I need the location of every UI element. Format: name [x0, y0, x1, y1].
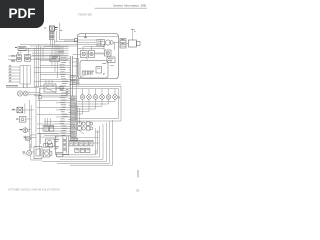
fuse block F — [45, 26, 58, 40]
terminal block X7 — [43, 144, 63, 158]
svg-text:B: B — [119, 96, 121, 100]
wire band upper — [18, 45, 69, 56]
gauge T2 — [24, 135, 37, 141]
svg-text:System Information, 30B: System Information, 30B — [113, 4, 146, 8]
wire diagonal — [74, 127, 84, 134]
connector ladder X4 — [8, 65, 31, 88]
footer text — [8, 188, 60, 192]
engine boundary box — [78, 34, 119, 79]
inline sensor — [38, 88, 69, 99]
wire rails left — [29, 88, 39, 157]
relay K4 — [46, 139, 55, 150]
page header rule — [95, 7, 148, 9]
ECM inner box — [80, 61, 114, 79]
wire loop bottom left — [25, 127, 42, 160]
relay group K5 K6 — [78, 122, 93, 130]
bolt on boundary — [64, 34, 87, 42]
sender unit B7 — [16, 117, 31, 123]
ECU pin labels — [60, 57, 71, 135]
junction box 41-42 — [40, 80, 63, 92]
wire injector returns — [76, 99, 115, 114]
antenna node — [131, 30, 136, 41]
wire injector risers — [83, 89, 116, 95]
junction box MD2 — [50, 45, 60, 79]
starter motor M1 — [105, 40, 119, 45]
connector stack X9 — [119, 39, 127, 49]
wire bus bottom — [42, 120, 113, 165]
injectors B1-B6 — [80, 95, 120, 100]
wire band to ECU — [34, 58, 69, 136]
gauge T3 — [23, 144, 35, 156]
shield box — [34, 147, 42, 159]
connector X2 — [8, 52, 69, 57]
wire bracket right outer — [76, 86, 122, 121]
terminal group X8 — [69, 138, 99, 153]
wire risers right of strip — [72, 58, 80, 96]
wire injector bus — [69, 79, 122, 89]
control box A1 — [54, 136, 69, 154]
wire bundle center — [76, 103, 80, 124]
svg-text:P: P — [103, 72, 105, 76]
gauge T1 — [20, 128, 32, 133]
connector X3 — [8, 58, 69, 61]
feed wire with tap — [60, 23, 78, 42]
wire engine feed — [72, 37, 118, 63]
PDF badge — [0, 0, 44, 28]
plug pair under strip — [71, 138, 78, 141]
terminal block X6 — [38, 118, 58, 144]
solenoid Y1 — [126, 40, 140, 47]
inline fuse F2 — [12, 104, 35, 115]
page header text — [113, 4, 146, 8]
wire bundle right of X8 — [95, 128, 99, 154]
svg-text:ATTONBE 10/20/21 9:48 AM VOLV: ATTONBE 10/20/21 9:48 AM VOLVO PENTA — [8, 188, 60, 192]
wire diagonal 2 — [45, 87, 57, 94]
svg-text:F: F — [45, 26, 47, 30]
page number — [136, 189, 140, 193]
switch S1 — [15, 47, 60, 55]
wire stub right — [137, 170, 139, 178]
node label 41-42 — [6, 85, 38, 87]
wires from fuse block — [30, 31, 78, 48]
wire trunk verticals — [34, 45, 64, 88]
inline connectors — [66, 89, 68, 94]
splice blocks on strip — [70, 76, 76, 85]
sensor G1 — [17, 91, 40, 96]
relay K3 — [95, 50, 115, 63]
ECU connector pin strip — [70, 56, 76, 137]
svg-text:F30/94.30E: F30/94.30E — [78, 13, 92, 17]
relay K2 — [81, 51, 95, 58]
drawing title — [78, 13, 92, 17]
svg-text:30: 30 — [136, 189, 140, 193]
relay K1 — [97, 40, 105, 47]
